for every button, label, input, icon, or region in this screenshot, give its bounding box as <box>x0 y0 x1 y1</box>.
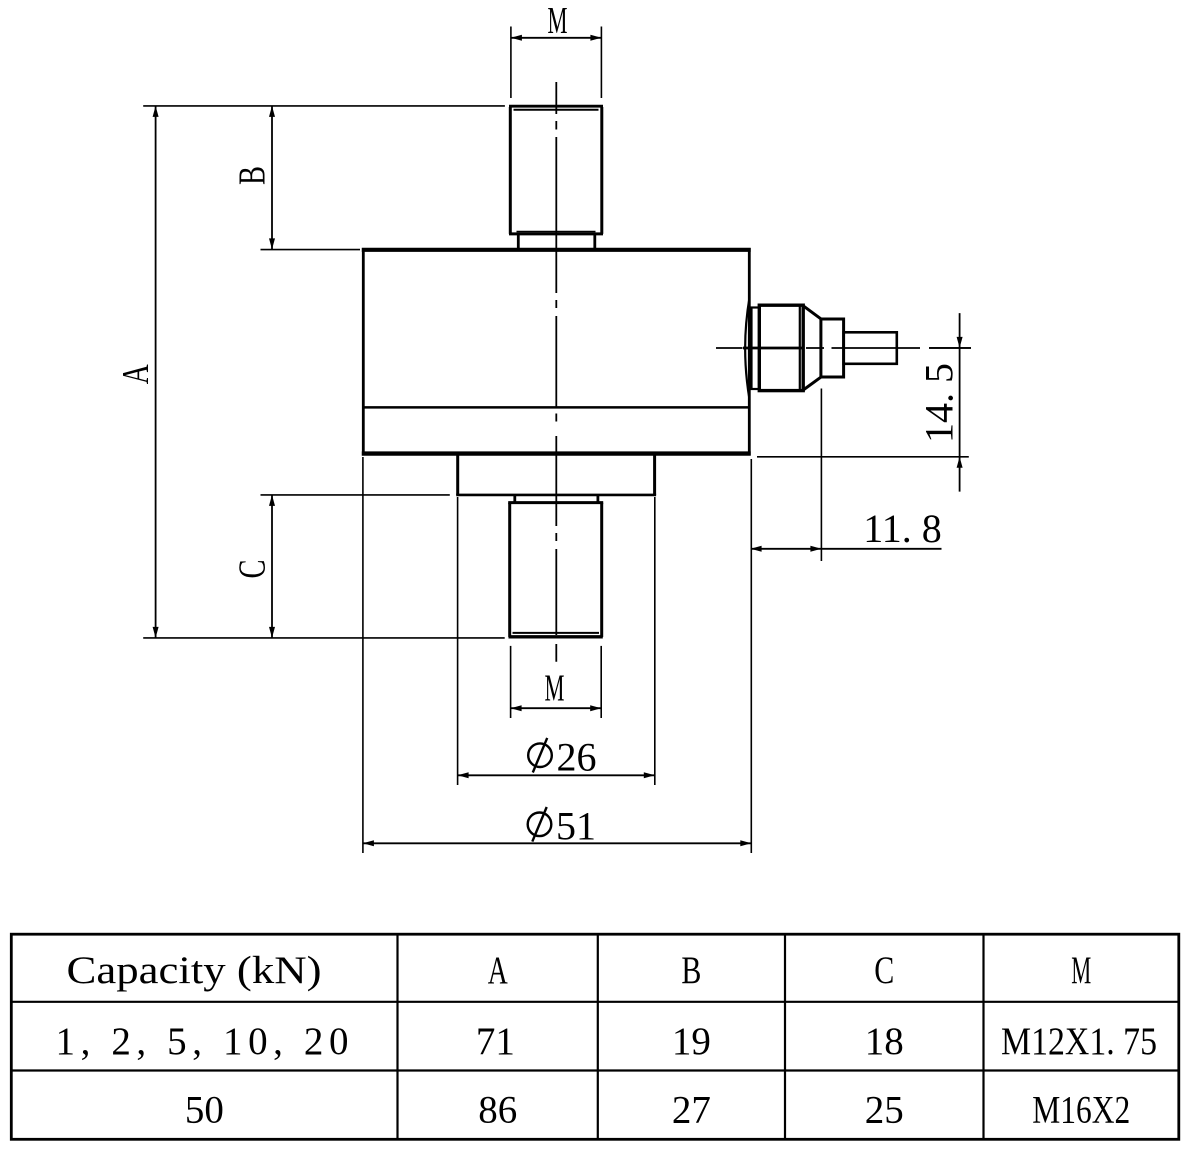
top stud neck <box>518 234 595 250</box>
connector pin <box>844 332 897 364</box>
dim 14.5: extension segment at centerline <box>929 347 971 349</box>
svg-text:50: 50 <box>185 1089 224 1132</box>
dim dia26: extension lines <box>457 497 459 785</box>
svg-text:C: C <box>874 949 894 992</box>
svg-text:19: 19 <box>672 1020 711 1063</box>
svg-text:14. 5: 14. 5 <box>917 363 962 443</box>
dim dia26: diameter symbol <box>528 743 552 767</box>
connector taper <box>803 306 821 320</box>
dim B: dimension line with arrows <box>271 106 273 250</box>
bottom flange <box>456 455 656 495</box>
svg-text:M: M <box>1071 949 1091 992</box>
vertical centerline <box>555 82 557 662</box>
dim dia51: diameter symbol <box>528 813 552 837</box>
svg-text:C: C <box>232 560 274 579</box>
svg-text:B: B <box>232 166 274 185</box>
bottom stud neck <box>515 495 598 503</box>
dim C: dimension line with arrows <box>271 495 273 638</box>
svg-text:M16X2: M16X2 <box>1032 1089 1130 1132</box>
dim B: lower extension line <box>261 249 361 251</box>
connector collar <box>821 319 844 377</box>
dim dia26: dimension line with arrows <box>458 774 655 776</box>
svg-text:27: 27 <box>672 1089 711 1132</box>
dim 11.8: dimension line with arrows <box>751 548 942 550</box>
svg-text:86: 86 <box>478 1089 517 1132</box>
dim dia51: dimension line with arrows <box>363 842 751 844</box>
dim 14.5: dimension line with outside arrows <box>959 313 961 492</box>
svg-text:51: 51 <box>556 803 596 848</box>
top stud M thread body <box>509 106 603 234</box>
svg-text:18: 18 <box>865 1020 904 1063</box>
svg-text:71: 71 <box>476 1020 515 1063</box>
connector housing inner edge <box>799 306 801 390</box>
svg-text:M12X1. 75: M12X1. 75 <box>1001 1020 1157 1063</box>
svg-text:A: A <box>488 949 508 992</box>
svg-text:26: 26 <box>557 734 597 779</box>
horizontal centerline (connector axis) <box>716 347 971 349</box>
svg-text:A: A <box>115 364 157 384</box>
svg-text:11. 8: 11. 8 <box>863 506 942 551</box>
dim C: upper extension line <box>261 494 450 496</box>
svg-text:Capacity (kN): Capacity (kN) <box>67 949 322 992</box>
dim M top: extension lines <box>510 27 512 99</box>
dim A: dimension line with arrows <box>155 106 157 638</box>
dim M bottom: extension lines <box>510 646 512 718</box>
dim 14.5: lower extension line <box>757 456 969 458</box>
dim 11.8: right extension line <box>820 389 822 562</box>
shared top extension line <box>143 105 505 107</box>
table grid <box>11 934 1179 1139</box>
svg-text:M: M <box>545 668 565 710</box>
bottom stud M thread body <box>508 503 603 637</box>
connector ring <box>752 308 760 390</box>
main cylindrical body <box>362 248 751 456</box>
shared bottom extension line <box>143 637 505 639</box>
dim M top: dimension line with arrows <box>511 37 602 39</box>
connector main housing <box>759 305 803 390</box>
connector mid split line <box>743 347 803 350</box>
svg-text:B: B <box>681 949 701 992</box>
connector boss arc on body <box>745 298 749 400</box>
dim M bottom: dimension line with arrows <box>511 707 602 709</box>
svg-text:M: M <box>548 0 568 42</box>
svg-text:25: 25 <box>865 1089 904 1132</box>
dim dia51: extension lines <box>362 457 364 853</box>
